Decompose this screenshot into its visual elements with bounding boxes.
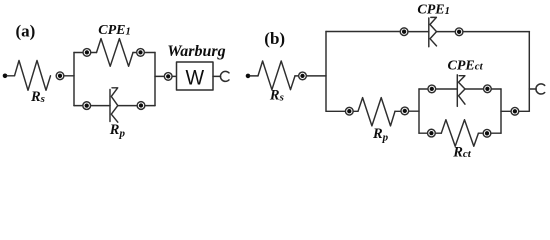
wire (a: node to Warburg box)	[173, 75, 177, 77]
wire (a: parallel box right vertical)	[154, 53, 156, 106]
wire (a: node to Rp plate)	[91, 105, 110, 107]
node (b: Rct branch right)	[483, 129, 491, 137]
svg-text:CPE1: CPE1	[417, 3, 449, 18]
node (a: bottom branch left)	[83, 102, 91, 110]
CPE CPE1 (b: plate)	[428, 18, 430, 47]
wire (a: top branch to CPE1)	[91, 52, 96, 54]
svg-text:CPEct: CPEct	[448, 58, 484, 73]
svg-text:Rct: Rct	[452, 145, 472, 161]
wire (b: CPEct to right node)	[465, 88, 483, 90]
wire (b: CPEct branch left segment)	[419, 88, 427, 90]
wire (a: parallel box left vertical)	[73, 53, 75, 106]
node (b: top branch right)	[455, 28, 463, 36]
CPE CPEct (b: plate)	[456, 75, 458, 107]
svg-text:W: W	[186, 67, 205, 90]
resistor Rct (b)	[441, 120, 478, 147]
node (b: after Rp)	[401, 107, 409, 115]
node (a: before Warburg)	[164, 73, 172, 81]
svg-text:Rp: Rp	[109, 122, 126, 139]
wire (b: node to CPE1 plate)	[409, 31, 429, 33]
wire (b: node to outer box right corner)	[519, 110, 529, 112]
wire (b: Rct branch left segment)	[419, 132, 427, 134]
wire (a: bottom branch left segment)	[74, 105, 82, 107]
node (b: CPEct branch left)	[428, 85, 436, 93]
wire (b: top branch left segment)	[326, 31, 400, 33]
node (a: bottom branch right)	[137, 102, 145, 110]
wire (a: node to parallel box)	[64, 75, 74, 77]
node (b: CPEct branch right)	[484, 85, 492, 93]
svg-text:Warburg: Warburg	[167, 43, 225, 60]
wire (b: Rs to node)	[295, 75, 298, 77]
wire (b: Rct branch right segment)	[491, 132, 501, 134]
resistor Rs (a)	[15, 61, 51, 91]
svg-text:Rp: Rp	[372, 126, 389, 143]
wire (b: node to outer box)	[307, 75, 326, 77]
wire (b: node to inner box)	[409, 110, 419, 112]
node (b: Rct branch left)	[428, 129, 436, 137]
wire (b: node to CPEct plate)	[436, 88, 457, 90]
terminal dot (left terminal of circuit a)	[3, 74, 8, 79]
svg-text:Rs: Rs	[269, 87, 284, 103]
wire (b: bottom branch left segment)	[326, 110, 345, 112]
CPE CPE1 (b: zigzag)	[430, 17, 437, 46]
resistor Rs (b)	[258, 61, 295, 90]
wire (b: CPE1 to right node)	[437, 31, 455, 33]
wire (b: node to Rct)	[436, 132, 442, 134]
wire (b: inner box to node)	[501, 110, 511, 112]
wire (b: top branch right segment)	[464, 31, 530, 33]
wire (b: Rct to right node)	[478, 132, 482, 134]
wire (b: dot to Rs)	[250, 75, 258, 77]
node (b: bottom branch right)	[511, 107, 519, 115]
wire (a: CPE1 to right node)	[133, 52, 136, 54]
wire (a: bottom branch right segment)	[145, 105, 155, 107]
wire (a: dot to Rs)	[7, 75, 14, 77]
Warburg element W (box)	[177, 62, 214, 90]
node (a: top branch right)	[137, 49, 145, 57]
terminal C (right terminal of circuit a)	[220, 71, 229, 81]
wire (b: CPEct branch right segment)	[492, 88, 501, 90]
wire (b: Rp to node)	[395, 110, 400, 112]
wire (b: node to Rp)	[354, 110, 358, 112]
node (b: after Rs)	[299, 72, 307, 80]
node (a: after Rs)	[56, 72, 64, 80]
node (a: top branch left)	[83, 49, 91, 57]
svg-text:(a): (a)	[15, 21, 35, 40]
wire (a: top branch right segment)	[145, 52, 155, 54]
CPE CPE1 (a, drawn as zigzag)	[97, 39, 134, 67]
wire (b: outer box left vertical)	[325, 32, 327, 112]
wire (a: top branch left segment)	[74, 52, 83, 54]
terminal dot (left terminal of circuit b)	[246, 74, 251, 79]
terminal C (right terminal of circuit b)	[536, 84, 545, 94]
node (b: top branch left)	[400, 28, 408, 36]
wire (a: Warburg box to output terminal)	[213, 75, 221, 77]
svg-text:(b): (b)	[264, 29, 285, 48]
svg-text:Rs: Rs	[30, 89, 45, 105]
resistor Rp (a, drawn as CPE symbol: zigzag)	[111, 88, 118, 122]
resistor Rp (a, drawn as CPE symbol: plate)	[109, 90, 111, 122]
svg-text:CPE1: CPE1	[98, 23, 130, 38]
wire (b: stub to output terminal)	[529, 88, 536, 90]
wire (b: inner box right vertical)	[500, 89, 502, 133]
node (b: bottom branch left)	[345, 107, 353, 115]
wire (b: outer box right vertical)	[528, 32, 530, 112]
resistor Rp (b)	[358, 98, 395, 126]
wire (b: inner box left vertical)	[418, 89, 420, 133]
wire (a: Rp to right node)	[118, 105, 137, 107]
CPE CPEct (b: zigzag)	[459, 76, 466, 105]
wire (a: box to node before Warburg)	[155, 75, 164, 77]
